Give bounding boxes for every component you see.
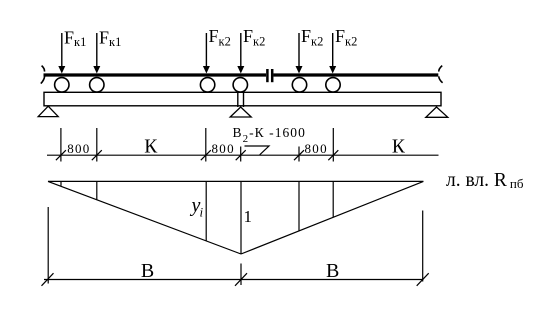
ordinate at support (unity) xyxy=(240,181,242,254)
dim slash 1 xyxy=(56,150,66,160)
svg-text:К: К xyxy=(392,136,406,157)
dim tick 6 tall xyxy=(332,128,334,162)
force arrow Fk2 no.4 xyxy=(237,33,244,74)
force arrow Fk1 no.2 xyxy=(93,33,100,74)
middle bearing column right line xyxy=(243,92,245,107)
crane wheel 4 xyxy=(233,78,247,92)
support triangle right xyxy=(426,107,448,117)
svg-text:1: 1 xyxy=(244,207,253,226)
dim slash 3 xyxy=(201,150,211,160)
svg-text:800: 800 xyxy=(304,141,327,156)
svg-text:В: В xyxy=(326,260,339,282)
force arrow Fk2 no.6 xyxy=(329,33,336,74)
support triangle middle xyxy=(230,107,251,117)
crane wheel 2 xyxy=(90,78,104,92)
ordinate at wheel 3 xyxy=(205,181,207,240)
rail joint bar left xyxy=(266,69,269,82)
ordinate at wheel 6 xyxy=(332,181,334,217)
crane wheel 3 xyxy=(200,78,214,92)
crane rail left segment xyxy=(44,73,267,76)
influence line right diagonal xyxy=(241,181,423,254)
influence line left diagonal xyxy=(48,181,241,254)
dim2 slash left xyxy=(42,273,54,286)
dim slash 6 xyxy=(328,150,338,160)
svg-text:i: i xyxy=(200,205,204,220)
crane girder beam xyxy=(44,92,441,106)
crane wheel 5 xyxy=(292,78,306,92)
dim2 tick left xyxy=(47,207,49,284)
rail joint bar right xyxy=(271,69,274,82)
support triangle left xyxy=(38,106,58,116)
svg-text:К: К xyxy=(144,136,158,157)
break mark right xyxy=(439,66,443,83)
crane wheel 1 xyxy=(55,78,69,92)
force arrow Fk2 no.5 xyxy=(296,33,303,74)
dim tick 4 short xyxy=(240,147,242,162)
break mark left xyxy=(41,66,45,84)
svg-text:800: 800 xyxy=(67,141,90,156)
dim2 slash middle xyxy=(235,273,247,286)
force arrow Fk1 no.1 xyxy=(58,33,65,74)
svg-text:800: 800 xyxy=(211,141,234,156)
dim tick 2 tall xyxy=(96,128,98,162)
influence line top chord xyxy=(48,180,423,182)
dim2 tick middle xyxy=(240,264,242,286)
dimension line row 1 xyxy=(47,154,439,156)
dim tick 5 short xyxy=(298,147,300,162)
leader line for B2-K-1600 xyxy=(245,146,270,155)
ordinate at wheel 2 xyxy=(96,181,98,199)
crane rail right segment xyxy=(274,73,439,76)
dim2 slash right xyxy=(417,273,429,286)
crane wheel 6 xyxy=(326,78,340,92)
dim2 tick right xyxy=(422,211,424,282)
middle bearing column left line xyxy=(237,92,239,107)
force arrow Fk2 no.3 xyxy=(203,33,210,74)
dim slash 2 xyxy=(92,150,102,160)
dim tick 1 tall xyxy=(60,128,62,162)
svg-text:В: В xyxy=(141,260,154,282)
dim slash 4 xyxy=(236,150,246,160)
dim tick 3 tall xyxy=(205,128,207,162)
ordinate at wheel 1 xyxy=(60,181,62,186)
dimension line row 2 xyxy=(44,279,423,281)
ordinate at wheel 5 xyxy=(298,181,300,230)
dim slash 5 xyxy=(294,150,304,160)
